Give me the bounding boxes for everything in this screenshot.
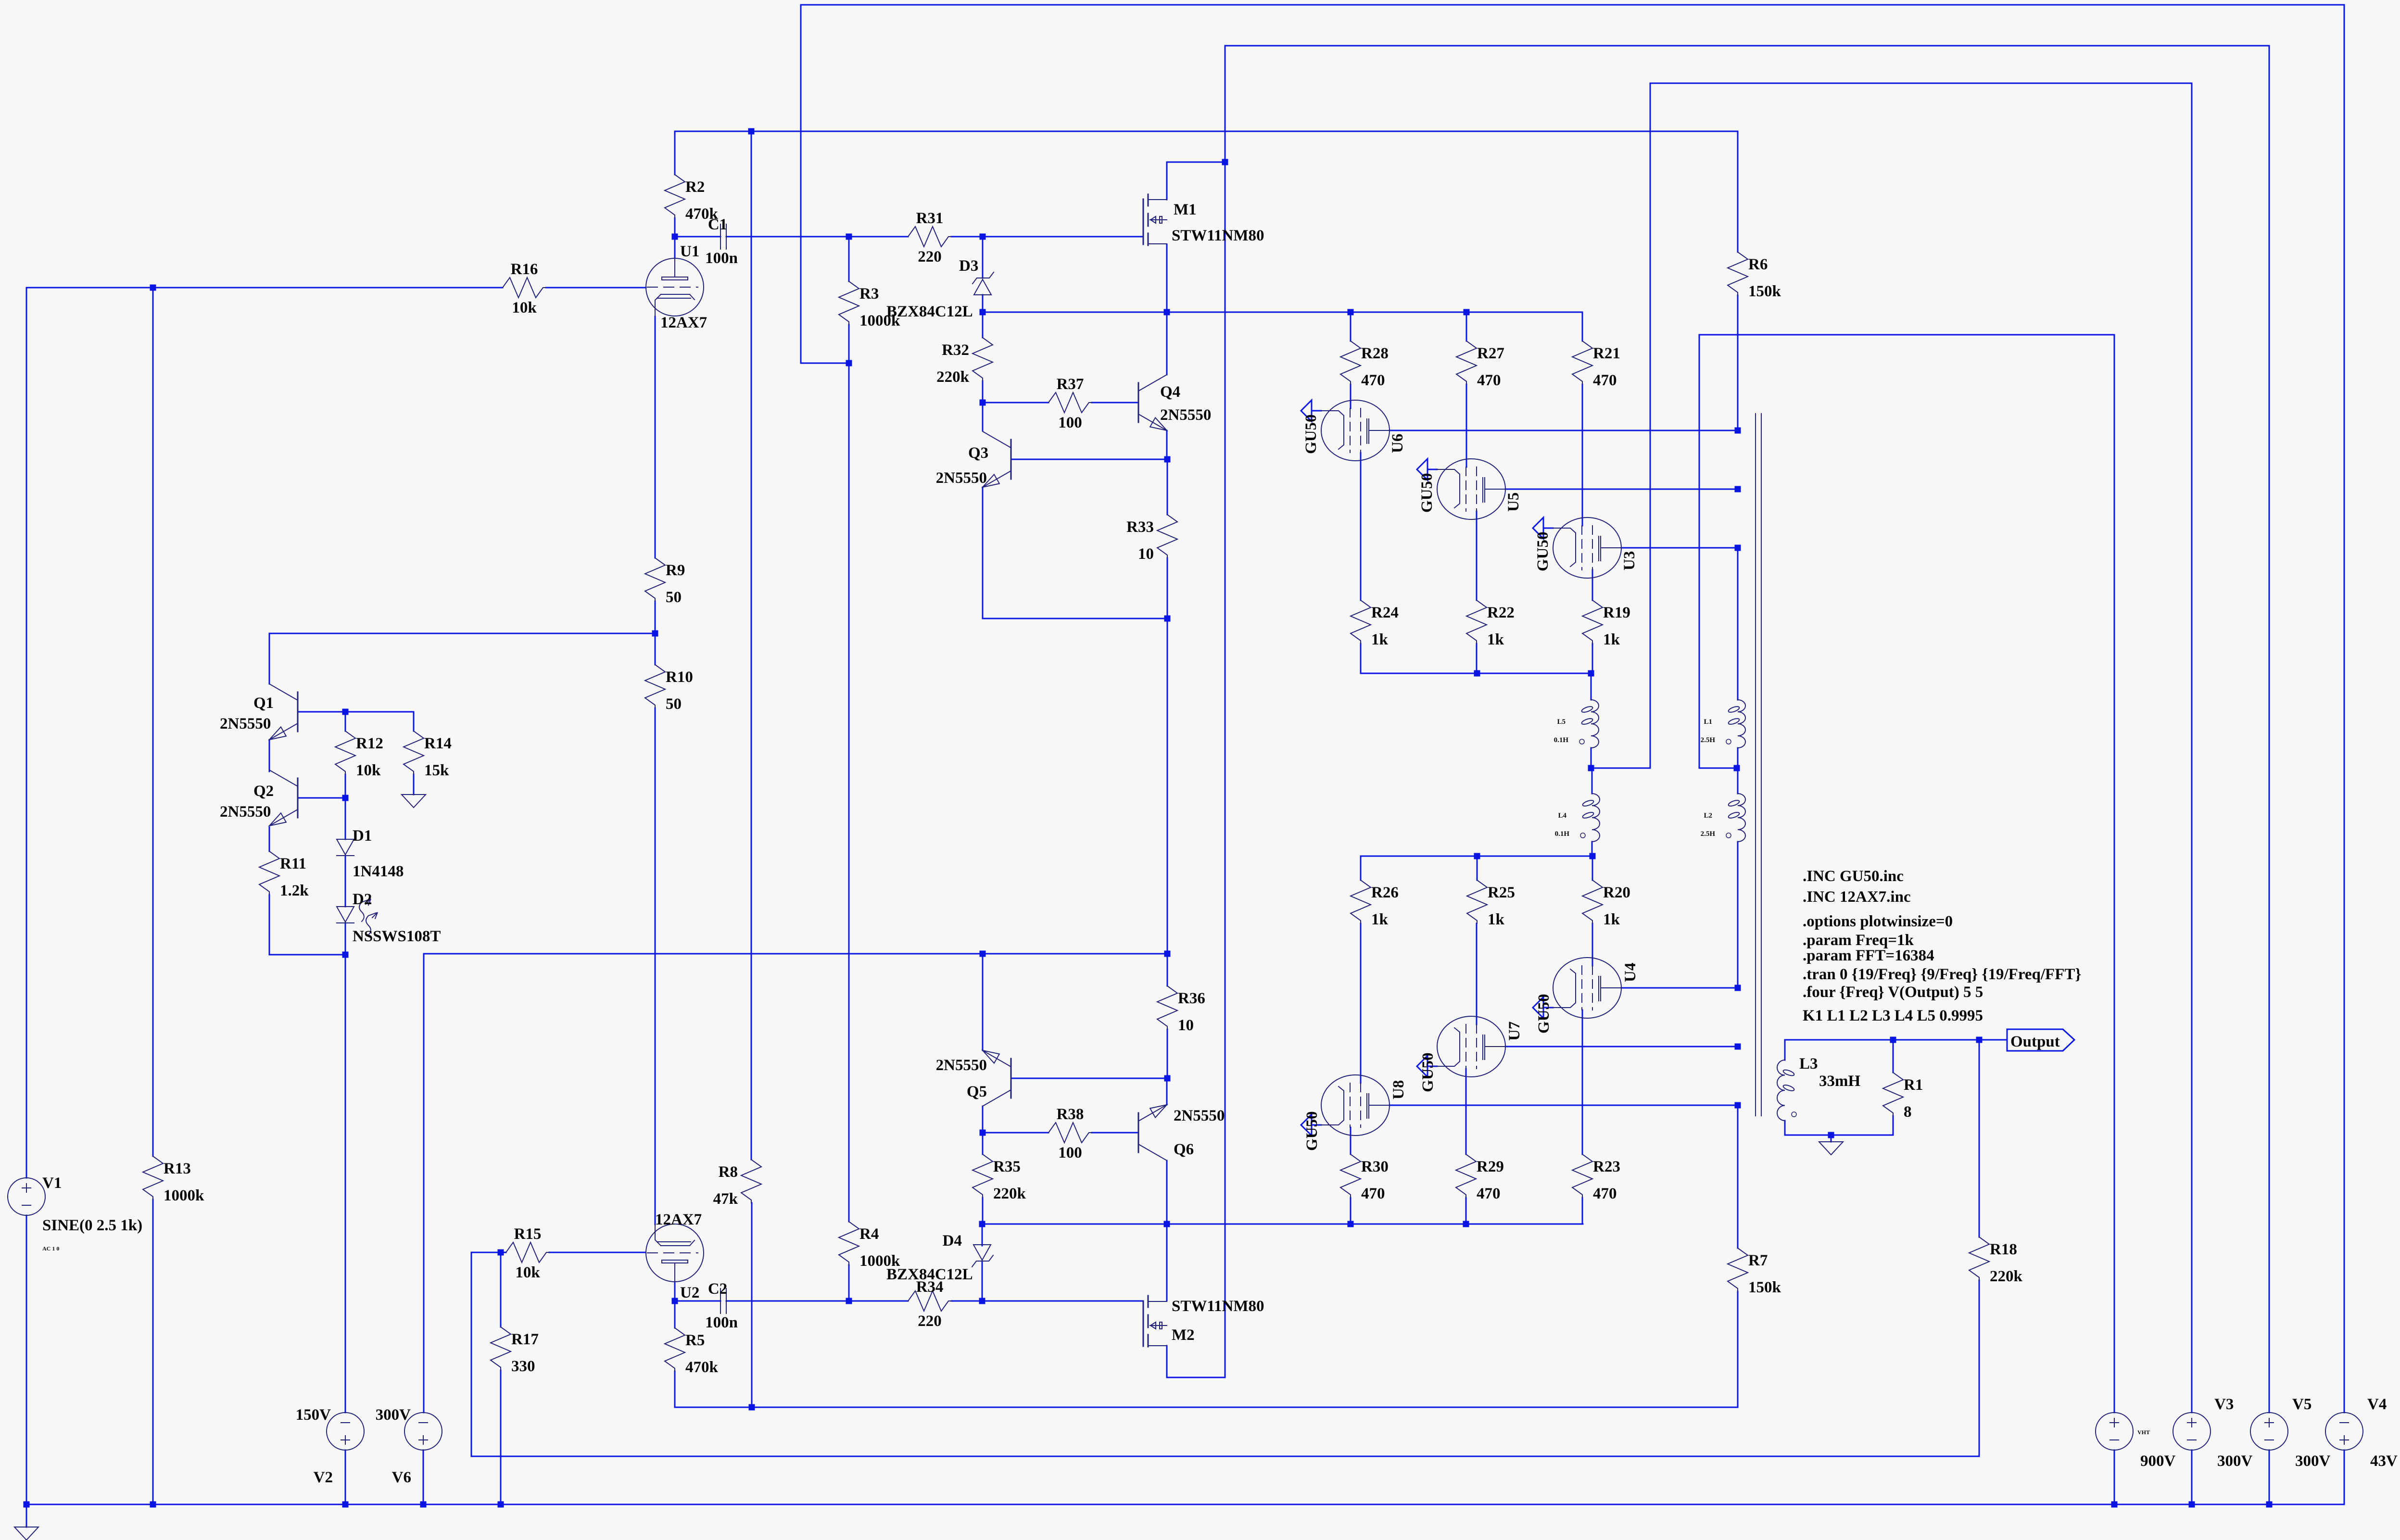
wire R18 to NFB rail <box>1979 1280 1980 1456</box>
resistor R10 <box>645 665 665 708</box>
wire tube cathode to R <box>1592 570 1593 600</box>
transistor Q3 <box>1011 440 1012 479</box>
resistor R11 <box>259 851 279 895</box>
svg-text:10: 10 <box>1178 1017 1194 1034</box>
resistor R32 <box>973 338 993 381</box>
svg-text:V6: V6 <box>392 1469 411 1486</box>
svg-text:R36: R36 <box>1178 990 1205 1007</box>
node U6 anode/R6 <box>1735 428 1741 434</box>
svg-text:10k: 10k <box>515 1264 540 1281</box>
node R29 <box>1463 1221 1469 1227</box>
svg-text:2N5550: 2N5550 <box>1160 406 1211 424</box>
svg-text:300V: 300V <box>2217 1452 2253 1470</box>
node V1 gnd <box>24 1502 30 1508</box>
wire U2 plate to C2 <box>675 1300 720 1302</box>
svg-text:10k: 10k <box>512 299 537 316</box>
U6 anode wire <box>1389 430 1738 431</box>
node R33 bottom <box>1164 616 1171 622</box>
wire Q2 emitter to R11 <box>269 827 270 851</box>
wire D2 down <box>345 923 346 955</box>
node V6 gnd <box>420 1502 427 1508</box>
wire to R38 <box>983 1132 1048 1134</box>
resistor R33 <box>1157 515 1177 558</box>
svg-text:Q3: Q3 <box>968 444 988 462</box>
resistor R37 <box>1048 392 1092 413</box>
inductor L2 <box>1738 794 1745 842</box>
svg-text:C2: C2 <box>708 1280 727 1298</box>
wire to R17 <box>500 1252 502 1327</box>
L4 bottom lead <box>1592 842 1593 856</box>
svg-text:900V: 900V <box>2140 1452 2176 1470</box>
svg-text:Q1: Q1 <box>253 694 274 712</box>
tube U4 GU50 <box>1553 958 1621 1018</box>
cathode arrow U6 <box>1301 400 1312 421</box>
wire to R6 <box>1737 131 1739 252</box>
svg-text:BZX84C12L: BZX84C12L <box>886 303 973 320</box>
svg-text:220: 220 <box>918 1313 942 1330</box>
resistor R25 <box>1467 880 1487 923</box>
wire V6 up <box>423 954 425 1413</box>
wire to L4 <box>1592 768 1593 794</box>
wire R to feed <box>1465 1198 1467 1224</box>
svg-text:D1: D1 <box>353 827 372 845</box>
wire R12 top <box>345 712 346 731</box>
tube U7 GU50 <box>1437 1016 1505 1077</box>
svg-text:R16: R16 <box>511 261 538 278</box>
wire bias node <box>801 363 849 364</box>
node L1/L2 center tap <box>1734 765 1740 771</box>
svg-text:330: 330 <box>511 1358 535 1375</box>
wire D3 to grid feed <box>982 295 984 312</box>
tube U2 12AX7 <box>646 1224 704 1282</box>
resistor R34 <box>908 1291 951 1311</box>
node R35/D4 <box>979 1221 985 1227</box>
node Q1b/R12/R14 <box>342 709 349 715</box>
svg-text:150k: 150k <box>1748 283 1781 300</box>
resistor R16 <box>503 278 546 298</box>
wire to 300V riser <box>1591 768 1650 769</box>
resistor R4 <box>839 1222 859 1265</box>
wire U2 plate down <box>674 1282 676 1301</box>
wire R to tube grid <box>1582 384 1583 526</box>
wire V3 up <box>2191 83 2193 1413</box>
inductor L4 <box>1592 794 1600 842</box>
svg-text:R11: R11 <box>280 855 306 872</box>
svg-text:10: 10 <box>1138 545 1154 563</box>
resistor R12 <box>335 731 355 774</box>
zener D4 cathode bar <box>972 1255 993 1267</box>
svg-text:R12: R12 <box>356 735 383 752</box>
output wire <box>1785 1039 2007 1041</box>
svg-text:15k: 15k <box>424 762 449 779</box>
svg-text:U2: U2 <box>680 1284 699 1301</box>
svg-text:0.1H: 0.1H <box>1555 830 1570 838</box>
wire R37 to Q4 base <box>1092 402 1138 404</box>
svg-text:V1: V1 <box>42 1174 62 1192</box>
wire R36 to node <box>1167 1029 1168 1078</box>
node R17 gnd <box>498 1502 504 1508</box>
ground R14 <box>402 795 426 808</box>
svg-text:V3: V3 <box>2214 1396 2234 1413</box>
svg-text:R4: R4 <box>859 1225 879 1243</box>
wire R to tube grid <box>1466 384 1467 467</box>
node Q5 emitter <box>980 951 986 957</box>
svg-text:1k: 1k <box>1603 631 1620 648</box>
transistor Q5 <box>1011 1059 1012 1098</box>
node Q5c/R38/R35 <box>980 1130 986 1136</box>
tube U8 GU50 <box>1321 1075 1389 1136</box>
svg-text:R33: R33 <box>1126 518 1154 536</box>
U5 anode wire <box>1505 489 1738 490</box>
node R28 <box>1348 309 1354 316</box>
svg-text:V2: V2 <box>314 1469 333 1486</box>
wire to R5 <box>674 1301 676 1328</box>
voltage source VHT <box>2096 1413 2133 1450</box>
svg-text:2N5550: 2N5550 <box>1174 1107 1225 1124</box>
transistor Q4 <box>1138 383 1139 422</box>
cathode arrow U5 <box>1417 459 1427 480</box>
svg-text:R37: R37 <box>1057 376 1084 393</box>
cathode return rail <box>675 1407 1738 1408</box>
svg-text:470: 470 <box>1361 1185 1385 1202</box>
wire R2 bottom to C1 <box>675 236 720 238</box>
svg-text:STW11NM80: STW11NM80 <box>1172 1298 1264 1315</box>
node L4/R20/rail <box>1590 853 1596 859</box>
wire M1 source to Q4 collector <box>1166 244 1168 375</box>
svg-text:470: 470 <box>1593 372 1617 389</box>
resistor R36 <box>1157 986 1177 1029</box>
drain bus vertical <box>1225 46 1226 1377</box>
wire to D1 <box>345 798 346 839</box>
svg-text:100: 100 <box>1058 1144 1082 1161</box>
svg-text:.INC GU50.inc: .INC GU50.inc <box>1803 868 1904 885</box>
node R15/R17 <box>498 1250 504 1256</box>
svg-text:GU50: GU50 <box>1535 994 1553 1034</box>
U3 anode wire <box>1621 547 1738 549</box>
svg-text:R1: R1 <box>1904 1076 1923 1094</box>
led arrowhead2 <box>372 912 378 919</box>
300V riser <box>1650 83 1651 768</box>
resistor R29 <box>1456 1154 1476 1198</box>
wire bias bus up <box>800 5 802 363</box>
resistor R38 <box>1048 1123 1092 1143</box>
resistor R28 <box>1340 341 1361 384</box>
wire R10 to U2 cathode <box>655 708 656 1224</box>
wire Q5 collector down <box>982 1106 984 1133</box>
svg-text:.options plotwinsize=0: .options plotwinsize=0 <box>1803 913 1953 930</box>
wire V6 to ground rail <box>423 1450 424 1504</box>
node U2 plate <box>672 1298 678 1304</box>
U4 anode wire <box>1621 987 1738 989</box>
node D3 anode <box>980 309 986 316</box>
wire down to R13 <box>152 288 154 1156</box>
svg-text:U5: U5 <box>1505 492 1522 512</box>
svg-text:VHT: VHT <box>2137 1429 2150 1436</box>
wire to R33 bottom <box>983 618 1167 619</box>
L5 bottom lead <box>1591 748 1592 768</box>
node V3 gnd <box>2189 1502 2195 1508</box>
wire to D4 <box>982 1224 983 1246</box>
node lower grid feed <box>1164 1221 1170 1227</box>
svg-text:R31: R31 <box>916 210 944 227</box>
svg-text:Output: Output <box>2010 1033 2060 1050</box>
svg-text:R32: R32 <box>942 341 969 359</box>
svg-text:470: 470 <box>1593 1185 1617 1202</box>
diode D1 <box>337 839 354 855</box>
node U7 anode <box>1735 1044 1741 1050</box>
wire R14 top <box>413 712 415 731</box>
wire R to feed <box>1582 1198 1583 1224</box>
svg-text:220k: 220k <box>936 368 970 386</box>
svg-text:R2: R2 <box>685 178 705 196</box>
wire R33 down <box>1167 558 1168 619</box>
wire R to cathode rail <box>1592 644 1593 673</box>
svg-text:.INC 12AX7.inc: .INC 12AX7.inc <box>1803 888 1911 906</box>
svg-text:V5: V5 <box>2292 1396 2312 1413</box>
wire U1 cathode to R9 <box>655 316 656 558</box>
svg-text:150V: 150V <box>296 1406 331 1424</box>
wire tube cathode to R <box>1360 453 1362 600</box>
resistor R5 <box>665 1328 685 1371</box>
ground V1 <box>14 1527 38 1540</box>
wire D4 to C2 line <box>982 1261 983 1301</box>
wire Q4 emitter down <box>1166 430 1168 459</box>
svg-text:R17: R17 <box>511 1331 539 1348</box>
wire R35 down <box>982 1198 984 1224</box>
svg-text:12AX7: 12AX7 <box>655 1211 702 1228</box>
lower grid feed wire <box>982 1224 1583 1225</box>
wire to V2 <box>345 955 346 1413</box>
wire R to cathode rail <box>1476 644 1478 673</box>
svg-text:U6: U6 <box>1389 434 1406 453</box>
led arrow2 <box>366 913 376 935</box>
wire R34 to D4 <box>951 1300 982 1302</box>
transformer core line 2 <box>1761 414 1762 1116</box>
wire tube to R <box>1465 1069 1467 1154</box>
node C1/R3 <box>846 234 852 240</box>
wire Q1 collector up <box>269 633 270 684</box>
svg-text:1.2k: 1.2k <box>280 882 309 899</box>
anode bus to L1 <box>1737 548 1739 700</box>
zener D3 cathode bar <box>973 272 994 284</box>
wire R to tube grid <box>1592 923 1593 966</box>
svg-text:Q2: Q2 <box>253 783 274 800</box>
wire R31 to D3 node <box>951 236 983 238</box>
node R25 <box>1474 853 1480 859</box>
L1 bottom lead <box>1737 748 1739 768</box>
svg-text:C1: C1 <box>708 216 727 233</box>
transformer core line 1 <box>1755 414 1756 1116</box>
wire grid feed to R <box>1350 312 1352 341</box>
inductor L5 <box>1591 700 1599 748</box>
wire D1 to D2 <box>345 856 346 907</box>
svg-text:GU50: GU50 <box>1303 1111 1321 1151</box>
svg-text:K1 L1 L2 L3 L4 L5 0.9995: K1 L1 L2 L3 L4 L5 0.9995 <box>1803 1007 1983 1024</box>
wire to L5 <box>1591 673 1592 700</box>
wire Q3 collector up <box>982 403 984 430</box>
svg-text:150k: 150k <box>1748 1279 1781 1296</box>
node mid/300V rail <box>1164 951 1171 957</box>
svg-text:.param FFT=16384: .param FFT=16384 <box>1803 947 1934 964</box>
wire to D3 <box>982 237 984 278</box>
resistor R3 <box>839 281 859 325</box>
wire R15 to U2 grid <box>549 1252 645 1253</box>
wire Q1 collector to cathode chain <box>269 633 655 634</box>
drain supply wire to V5 <box>1225 45 2269 47</box>
led arrowhead1 <box>366 899 371 905</box>
svg-text:50: 50 <box>666 589 682 606</box>
wire R to tube grid <box>1476 923 1478 1024</box>
resistor R24 <box>1351 600 1371 644</box>
resistor R6 <box>1728 252 1748 295</box>
plate node wire to R6 <box>675 131 1738 132</box>
wire R17 to ground rail <box>500 1370 502 1504</box>
node U8 anode <box>1735 1102 1741 1109</box>
resistor R26 <box>1351 880 1371 923</box>
svg-text:R15: R15 <box>514 1225 542 1243</box>
svg-text:R5: R5 <box>685 1332 705 1349</box>
wire R to tube grid <box>1360 923 1362 1083</box>
wire V4 to rail <box>2344 1450 2345 1504</box>
voltage source V6 <box>404 1413 442 1450</box>
svg-text:R38: R38 <box>1057 1106 1084 1123</box>
node R27 <box>1464 309 1470 316</box>
transistor Q2 <box>297 778 299 818</box>
node drain bus <box>1222 159 1228 165</box>
svg-text:L5: L5 <box>1557 718 1566 726</box>
wire Q6 emitter up <box>1166 1078 1168 1105</box>
wire NFB to R15 node <box>471 1252 501 1253</box>
resistor R1 <box>1883 1073 1903 1116</box>
svg-text:R26: R26 <box>1371 884 1399 901</box>
svg-text:R8: R8 <box>719 1163 738 1181</box>
svg-text:BZX84C12L: BZX84C12L <box>886 1266 973 1283</box>
gnd stem <box>1831 1135 1832 1142</box>
led D2 bar <box>337 922 354 923</box>
node L5/L4 <box>1588 765 1594 771</box>
output flag <box>2007 1029 2074 1051</box>
L2 bottom to lower anodes <box>1737 842 1739 988</box>
svg-text:GU50: GU50 <box>1419 1053 1437 1093</box>
wire VHT to rail <box>2114 1450 2115 1504</box>
svg-text:U3: U3 <box>1621 551 1638 570</box>
svg-text:220k: 220k <box>993 1185 1026 1202</box>
node V5 gnd <box>2266 1502 2273 1508</box>
svg-text:1k: 1k <box>1371 631 1389 648</box>
svg-text:Q4: Q4 <box>1160 383 1180 401</box>
wire Q3 emitter down <box>982 487 984 619</box>
wire R8 to cathode rail <box>751 1203 753 1407</box>
wire to R35 <box>982 1133 984 1154</box>
svg-text:STW11NM80: STW11NM80 <box>1172 227 1264 244</box>
anode bus to R7 <box>1737 1105 1739 1248</box>
svg-text:100n: 100n <box>705 250 738 267</box>
wire input down to V1 <box>26 288 27 1178</box>
wire to L3 <box>1784 1040 1786 1060</box>
+300V rail <box>424 953 1167 955</box>
node R30 <box>1348 1221 1354 1227</box>
node R31/D3/M1 gate <box>980 234 986 240</box>
svg-text:50: 50 <box>666 695 682 713</box>
node Q2b/R12/D1 <box>342 795 349 801</box>
svg-text:47k: 47k <box>713 1190 738 1208</box>
svg-text:R27: R27 <box>1477 345 1504 362</box>
resistor R8 <box>741 1160 761 1203</box>
node R19/L5 <box>1588 670 1594 677</box>
node R1 <box>1890 1037 1896 1043</box>
wire R11 to D2 node <box>269 954 345 956</box>
input wire left segment <box>26 287 503 289</box>
transistor Q6 <box>1138 1113 1139 1152</box>
svg-text:100n: 100n <box>705 1314 738 1331</box>
wire C1 to R31 <box>726 236 908 238</box>
cathode arrow U4 <box>1533 997 1543 1018</box>
svg-text:R22: R22 <box>1487 604 1515 621</box>
svg-text:1k: 1k <box>1603 911 1620 928</box>
wire tube to R <box>1582 1010 1583 1154</box>
transistor Q1 <box>297 692 299 732</box>
wire R32 to node <box>982 381 984 403</box>
wire R6 to anode bus <box>1737 295 1739 430</box>
wire V3 to rail <box>2191 1450 2193 1504</box>
bias bus top wire <box>801 4 2344 6</box>
wire R to cathode rail <box>1360 644 1362 673</box>
voltage source V2 <box>327 1413 364 1450</box>
center tap bus up <box>1699 335 1700 768</box>
svg-text:SINE(0 2.5 1k): SINE(0 2.5 1k) <box>42 1217 142 1234</box>
wire Q5 base <box>1011 1078 1167 1079</box>
svg-text:V4: V4 <box>2367 1396 2387 1413</box>
wire R3 to bias node <box>848 325 850 363</box>
tube U1 12AX7 <box>646 258 704 316</box>
wire R4 to C2 line <box>848 1265 850 1301</box>
svg-text:1000k: 1000k <box>164 1187 204 1204</box>
svg-text:.four {Freq} V(Output) 5 5: .four {Freq} V(Output) 5 5 <box>1803 984 1983 1001</box>
resistor R9 <box>645 558 665 601</box>
svg-text:300V: 300V <box>376 1406 411 1424</box>
wire tube cathode to R <box>1476 511 1478 600</box>
wire V2 to ground rail <box>345 1450 346 1504</box>
node source/grid feed <box>1164 309 1170 316</box>
svg-text:GU50: GU50 <box>1534 532 1552 572</box>
svg-text:GU50: GU50 <box>1302 415 1320 454</box>
B+ wire to VHT <box>1699 334 2114 336</box>
resistor R14 <box>404 731 424 774</box>
stub <box>501 1252 506 1253</box>
NFB rail <box>471 1456 1979 1457</box>
svg-text:33mH: 33mH <box>1819 1073 1860 1090</box>
svg-text:R20: R20 <box>1603 884 1630 901</box>
resistor R27 <box>1456 341 1477 384</box>
wire V5 up <box>2269 46 2270 1413</box>
node R36/Q5b/Q6e <box>1164 1075 1171 1082</box>
resistor R22 <box>1466 600 1487 644</box>
svg-text:0.1H: 0.1H <box>1554 736 1569 744</box>
wire R13 to ground rail <box>152 1199 154 1504</box>
svg-text:100: 100 <box>1058 414 1082 431</box>
capacitor C2 <box>720 1288 721 1313</box>
svg-text:Q5: Q5 <box>967 1083 987 1100</box>
wire to M2 gate <box>982 1300 1143 1302</box>
node R32/R37/Q3 collector <box>980 400 986 406</box>
wire R16 to U1 grid <box>546 287 646 289</box>
svg-text:12AX7: 12AX7 <box>660 314 707 331</box>
wire bias to R4 <box>848 363 850 1222</box>
tube U5 GU50 <box>1437 459 1505 519</box>
resistor R17 <box>491 1327 511 1370</box>
wire M2 drain to bus <box>1167 1377 1225 1378</box>
svg-text:U7: U7 <box>1506 1022 1523 1041</box>
